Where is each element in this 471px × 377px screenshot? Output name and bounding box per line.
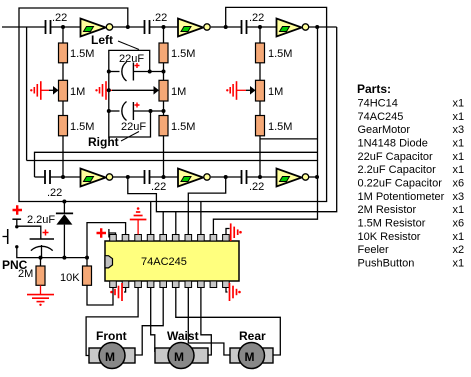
svg-text:x1: x1	[453, 151, 465, 163]
diode D1 1N4148	[56, 202, 73, 258]
svg-text:Waist: Waist	[167, 329, 199, 343]
capacitor C9 2.2uF	[17, 214, 56, 258]
inverter U1A (top row 1)	[81, 19, 113, 37]
capacitor C2 0.22uF	[145, 20, 150, 34]
svg-text:x1: x1	[453, 231, 465, 243]
svg-text:1.5M Resistor: 1.5M Resistor	[358, 218, 426, 230]
wire net L2 feedback loop (inner)	[27, 27, 337, 212]
wire callout right	[121, 132, 139, 142]
svg-text:74HC14: 74HC14	[358, 98, 398, 110]
wire 22uF bracket left	[109, 50, 150, 71]
ground (red, sideways) pin b2	[110, 283, 122, 301]
pins U2 top row	[110, 235, 230, 242]
capacitor C5 0.22uF	[145, 170, 150, 184]
junction dots PNC rail	[39, 200, 90, 260]
svg-text:74AC245: 74AC245	[358, 111, 404, 123]
svg-text:.22: .22	[151, 181, 166, 193]
svg-text:1M: 1M	[70, 86, 85, 98]
capacitor C6 0.22uF	[242, 170, 247, 184]
resistor R5 1.5M	[256, 43, 265, 63]
svg-text:10K: 10K	[60, 272, 80, 284]
wire pin t4 up	[150, 202, 152, 235]
wire 22uF row bottom	[109, 110, 120, 112]
wire pin b8 to Waist motor right	[201, 288, 211, 356]
wire inverter U1E output to pin t7	[188, 177, 225, 235]
op-amp U2 74AC245 chip body	[105, 241, 239, 281]
svg-text:22uF: 22uF	[121, 121, 146, 133]
capacitor C1 0.22uF	[46, 20, 51, 34]
svg-text:x1: x1	[453, 164, 465, 176]
svg-text:0.22uF Capacitor: 0.22uF Capacitor	[358, 178, 443, 190]
motor M1 Front	[89, 329, 135, 369]
svg-text:x1: x1	[453, 258, 465, 270]
wire pin b5 to Front motor right	[135, 288, 163, 356]
ground (red) pot 1 wiper	[30, 81, 58, 100]
wire pin b2 stub	[124, 288, 126, 293]
svg-text:x6: x6	[453, 178, 465, 190]
motor M2 Waist	[155, 329, 208, 369]
svg-text:1M Potentiometer: 1M Potentiometer	[358, 191, 445, 203]
inverter U1D (middle row 1)	[81, 169, 113, 187]
ground (red) pot 2 wiper	[95, 81, 159, 100]
wire pin t2 to PNC rail	[87, 223, 126, 258]
wire pin b10 stub	[226, 288, 228, 293]
wire middle inverter row	[35, 176, 318, 178]
svg-text:1.5M: 1.5M	[268, 48, 292, 60]
svg-text:x6: x6	[453, 218, 465, 230]
ground (red, sideways) pin b10	[230, 283, 241, 301]
svg-text:PushButton: PushButton	[358, 258, 415, 270]
wire pin b3 to Front motor left	[86, 288, 138, 356]
svg-text:2.2uF: 2.2uF	[27, 214, 55, 226]
svg-text:Front: Front	[96, 329, 127, 343]
potentiometer VR2 1M	[159, 80, 168, 101]
inverter U1E (middle row 2)	[178, 169, 210, 187]
junction dots top row	[61, 25, 319, 29]
wire top oscillator row	[2, 26, 337, 28]
wire 2M top	[40, 258, 42, 266]
resistor R1 1.5M	[59, 43, 68, 63]
junction dots 22uF rows	[107, 70, 166, 114]
svg-text:M: M	[105, 350, 115, 364]
power plus (red) PNC	[13, 205, 23, 215]
potentiometer VR1 1M	[59, 80, 68, 101]
capacitor C3 0.22uF	[242, 20, 247, 34]
wire pin t1 hook to plus	[109, 229, 116, 238]
capacitor C7 22uF	[119, 53, 144, 81]
inverter U1B (top row 2)	[178, 19, 210, 37]
svg-text:2M Resistor: 2M Resistor	[358, 204, 417, 216]
pins U2 bottom row	[110, 281, 230, 288]
wire pin t10 stub	[226, 229, 230, 235]
svg-text:.22: .22	[152, 12, 167, 24]
svg-text:10K Resistor: 10K Resistor	[358, 231, 421, 243]
power plus (red) at chip pin 1	[97, 228, 107, 238]
svg-text:x3: x3	[453, 191, 465, 203]
svg-text:x1: x1	[453, 111, 465, 123]
svg-text:.22: .22	[47, 187, 62, 199]
wire pin b1 to 10K	[87, 286, 113, 306]
wire pin b4 to Waist motor left	[151, 288, 155, 353]
wire pin b6 to Rear motor right	[176, 288, 280, 356]
resistor chain column 2 wire	[163, 27, 165, 177]
svg-text:22uF Capacitor: 22uF Capacitor	[358, 151, 434, 163]
svg-text:1N4148 Diode: 1N4148 Diode	[358, 138, 428, 150]
wire 22uF row top	[109, 71, 120, 73]
svg-text:x2: x2	[453, 244, 465, 256]
svg-text:.22: .22	[52, 12, 67, 24]
pushbutton S1	[3, 219, 41, 257]
wire PNC rail	[41, 257, 88, 259]
inverter U1C (top row 3)	[277, 19, 309, 37]
wire pin t6 up	[175, 212, 177, 235]
junction dots middle row	[61, 175, 319, 179]
ground (red) pot 3 wiper	[226, 81, 255, 100]
svg-text:Left: Left	[91, 33, 113, 47]
svg-text:M: M	[245, 350, 255, 364]
wire 10K top	[86, 258, 88, 266]
svg-text:Parts:: Parts:	[357, 82, 391, 96]
svg-text:x1: x1	[453, 98, 465, 110]
inverter U1F (middle row 3)	[277, 169, 309, 187]
svg-text:1M: 1M	[171, 86, 186, 98]
wire pin t5 up	[162, 212, 164, 235]
resistor R4 1.5M	[159, 116, 168, 136]
resistor chain column 1 wire	[62, 27, 64, 177]
svg-text:1.5M: 1.5M	[171, 48, 195, 60]
svg-text:1.5M: 1.5M	[70, 121, 94, 133]
svg-text:74AC245: 74AC245	[141, 256, 187, 268]
power symbol (red) pin t3	[130, 207, 147, 234]
parts list	[357, 82, 464, 270]
capacitor C4 0.22uF	[45, 170, 50, 184]
svg-text:1.5M: 1.5M	[70, 48, 94, 60]
svg-text:x3: x3	[453, 124, 465, 136]
motor M3 Rear	[230, 329, 273, 369]
resistor R3 1.5M	[159, 43, 168, 63]
resistor R6 1.5M	[256, 116, 265, 136]
svg-text:1.5M: 1.5M	[268, 121, 292, 133]
svg-text:M: M	[174, 350, 184, 364]
svg-text:.22: .22	[249, 12, 264, 24]
svg-text:.22: .22	[249, 181, 264, 193]
resistor R2 1.5M	[59, 116, 68, 136]
ground (red) below 2M	[27, 285, 54, 306]
wire net W1 (cap1 input to inv6 output)	[27, 161, 318, 235]
svg-text:Rear: Rear	[239, 329, 266, 343]
svg-text:2.2uF Capacitor: 2.2uF Capacitor	[358, 164, 437, 176]
wire pin b7 to Rear motor left	[188, 288, 230, 356]
resistor chain column 3 wire	[259, 27, 261, 177]
resistor R8 10K	[83, 266, 92, 285]
capacitor C8 22uF	[121, 102, 146, 134]
svg-text:1M: 1M	[268, 86, 283, 98]
potentiometer VR3 1M	[256, 80, 265, 101]
svg-text:2M: 2M	[18, 268, 33, 280]
svg-text:22uF: 22uF	[119, 53, 144, 65]
svg-text:1.5M: 1.5M	[171, 121, 195, 133]
svg-text:GearMotor: GearMotor	[358, 124, 411, 136]
svg-text:x1: x1	[453, 204, 465, 216]
ground (red, sideways) pin t10	[231, 223, 242, 241]
wire net W2 (cap4 input feedback to col3 chain)	[35, 27, 318, 177]
wire net L1 feedback loop (outer box)	[19, 7, 327, 201]
wire pin t8 up	[200, 202, 202, 235]
resistor R7 2M	[36, 266, 45, 285]
svg-text:x1: x1	[453, 138, 465, 150]
svg-text:Feeler: Feeler	[358, 244, 390, 256]
wire callout left	[118, 41, 139, 50]
